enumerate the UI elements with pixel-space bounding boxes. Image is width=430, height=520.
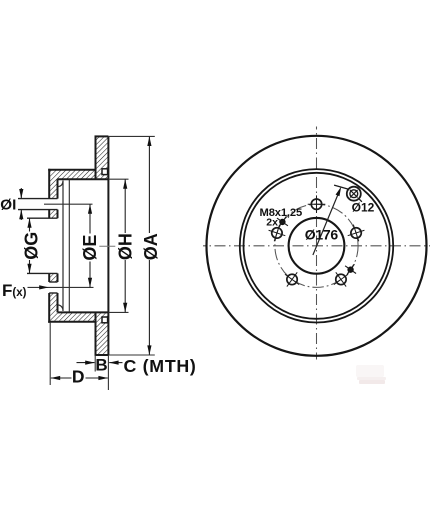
svg-text:D: D	[72, 367, 85, 387]
svg-text:ØI: ØI	[0, 197, 16, 214]
svg-text:C (MTH): C (MTH)	[124, 356, 197, 376]
svg-text:ØA: ØA	[141, 233, 161, 260]
svg-text:ØH: ØH	[116, 233, 136, 260]
svg-text:ØE: ØE	[80, 235, 100, 261]
svg-text:ØG: ØG	[21, 232, 41, 260]
svg-text:B: B	[95, 355, 107, 374]
svg-text:Ø176: Ø176	[305, 226, 339, 242]
svg-text:2x: 2x	[266, 216, 278, 228]
svg-text:Ø12: Ø12	[352, 201, 375, 215]
